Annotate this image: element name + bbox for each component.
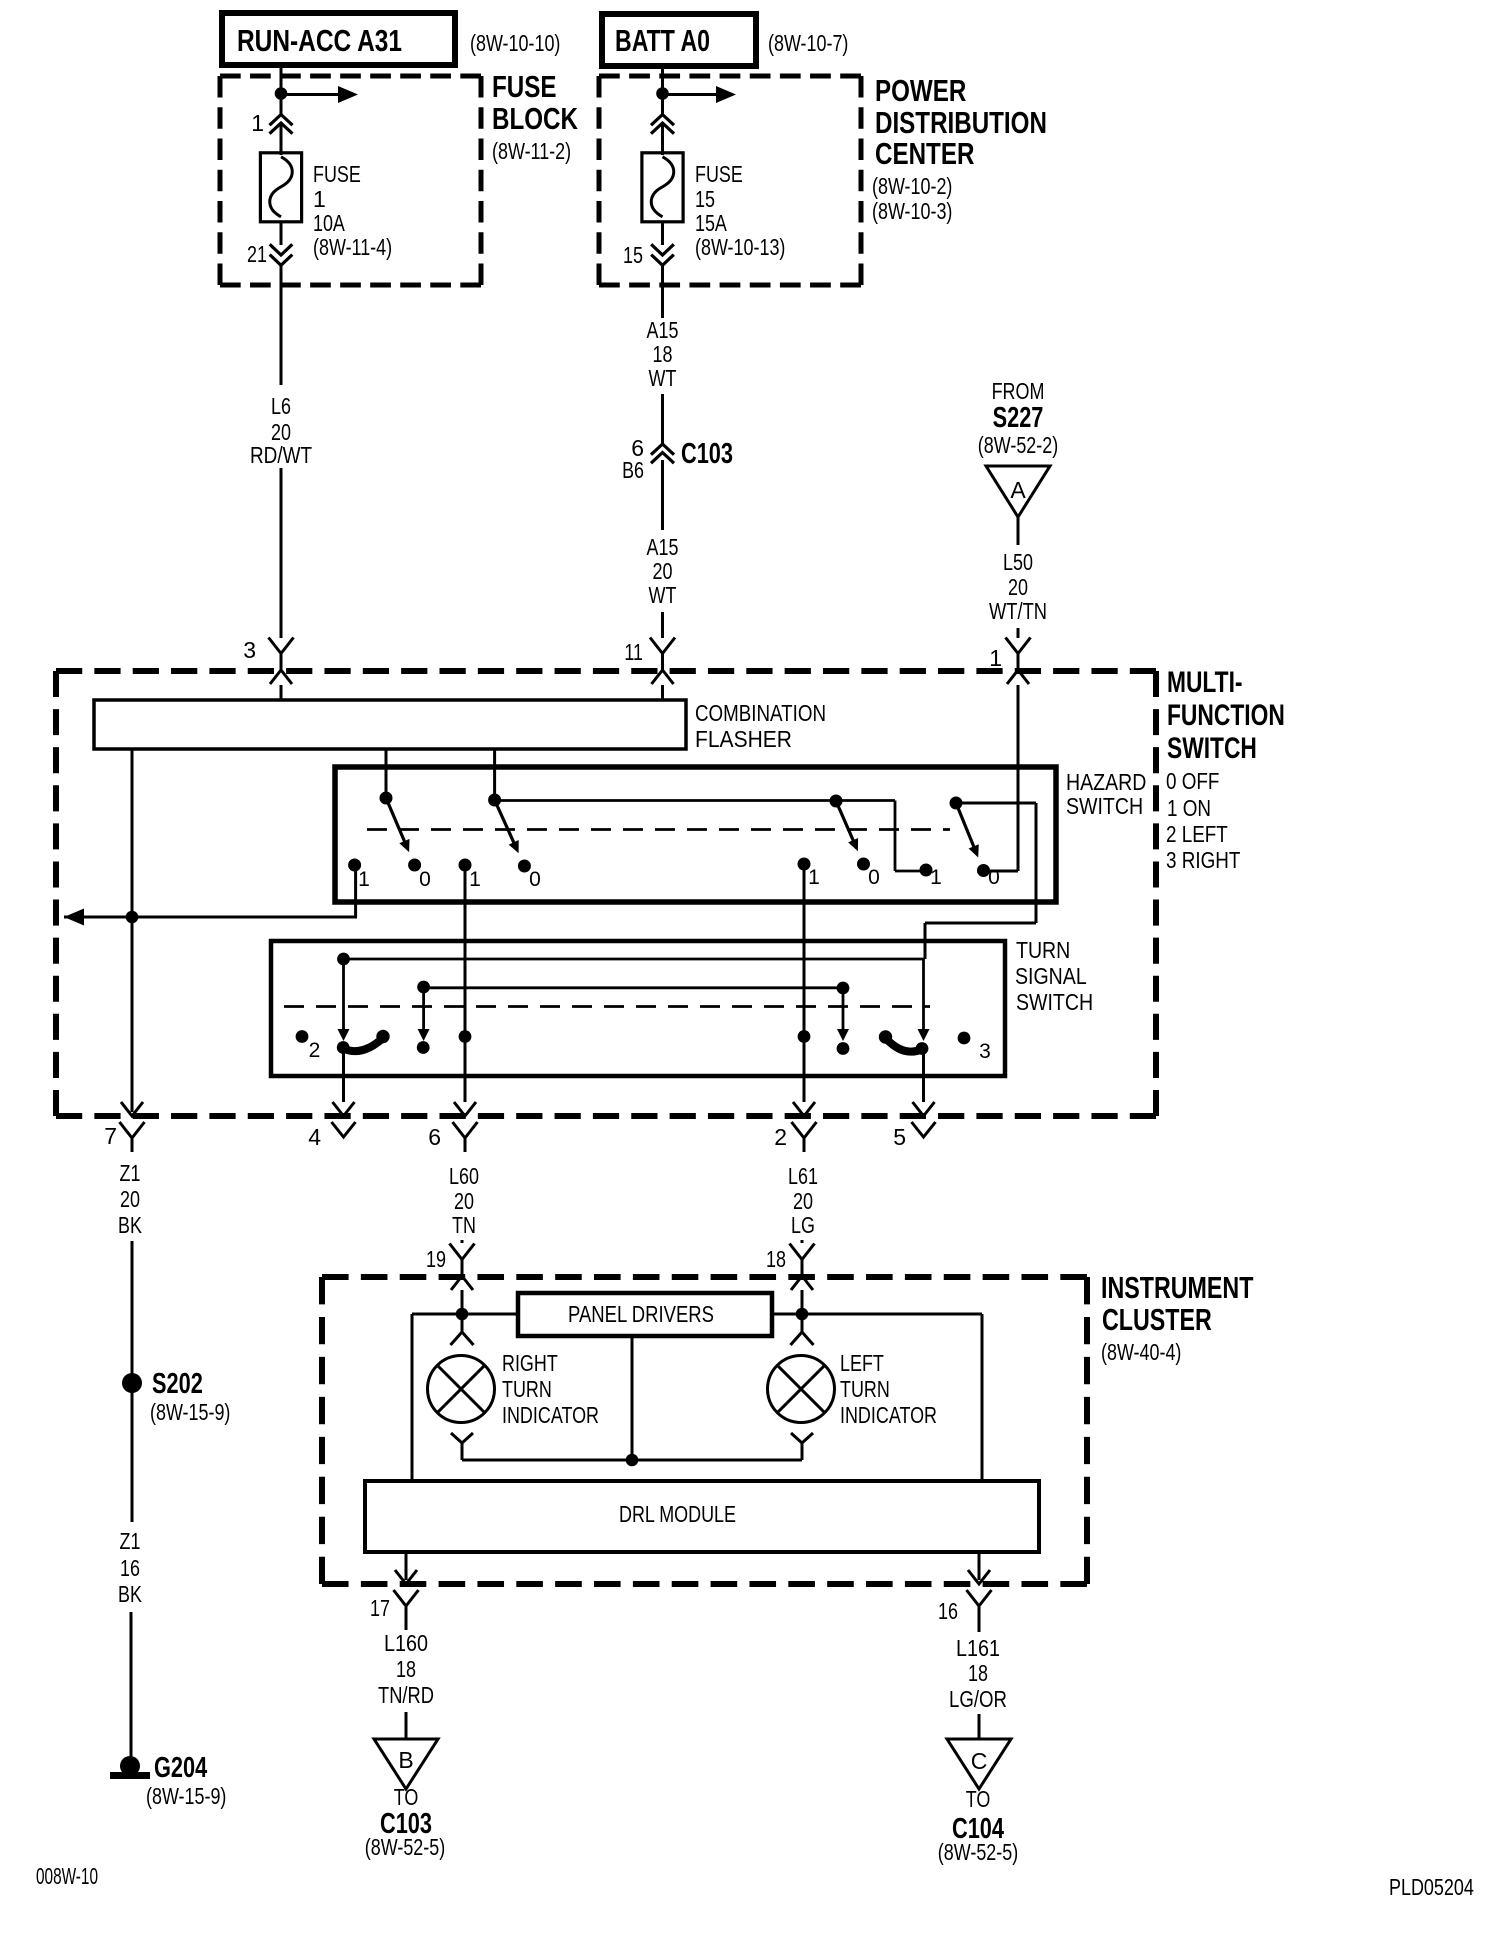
svg-text:20: 20	[653, 558, 673, 584]
svg-text:1: 1	[989, 645, 1002, 671]
svg-text:6: 6	[428, 1124, 441, 1150]
svg-text:(8W-15-9): (8W-15-9)	[150, 1399, 230, 1425]
svg-text:16: 16	[938, 1598, 958, 1624]
svg-text:L6: L6	[271, 393, 291, 419]
svg-text:2 LEFT: 2 LEFT	[1166, 821, 1228, 847]
svg-text:G204: G204	[154, 1752, 207, 1784]
svg-text:0: 0	[988, 866, 1000, 889]
svg-text:BATT A0: BATT A0	[615, 23, 710, 58]
svg-text:SWITCH: SWITCH	[1016, 989, 1093, 1015]
svg-text:1 ON: 1 ON	[1167, 795, 1211, 821]
svg-text:0 OFF: 0 OFF	[1166, 768, 1219, 794]
svg-text:C103: C103	[681, 438, 733, 470]
svg-text:1: 1	[251, 110, 264, 136]
svg-text:18: 18	[653, 341, 673, 367]
svg-text:TURN: TURN	[502, 1376, 552, 1402]
svg-text:(8W-52-5): (8W-52-5)	[938, 1839, 1018, 1865]
svg-text:COMBINATION: COMBINATION	[695, 700, 826, 726]
svg-text:10A: 10A	[313, 210, 345, 236]
svg-text:B6: B6	[622, 457, 644, 483]
svg-text:CENTER: CENTER	[875, 136, 974, 171]
svg-text:(8W-10-7): (8W-10-7)	[768, 30, 848, 56]
svg-text:TN: TN	[452, 1212, 476, 1238]
svg-text:INDICATOR: INDICATOR	[840, 1402, 937, 1428]
svg-text:FUSE: FUSE	[492, 69, 557, 104]
svg-text:(8W-52-2): (8W-52-2)	[978, 432, 1058, 458]
svg-text:SWITCH: SWITCH	[1167, 732, 1257, 765]
svg-text:L50: L50	[1003, 549, 1033, 575]
svg-text:Z1: Z1	[120, 1160, 141, 1186]
svg-text:1: 1	[930, 866, 942, 889]
svg-text:PANEL DRIVERS: PANEL DRIVERS	[568, 1301, 714, 1327]
svg-text:20: 20	[454, 1188, 474, 1214]
svg-text:7: 7	[104, 1123, 117, 1149]
svg-text:FUSE: FUSE	[695, 161, 743, 187]
svg-text:RIGHT: RIGHT	[502, 1350, 558, 1376]
svg-text:SIGNAL: SIGNAL	[1015, 963, 1087, 989]
svg-text:(8W-15-9): (8W-15-9)	[146, 1783, 226, 1809]
svg-text:HAZARD: HAZARD	[1066, 769, 1146, 795]
svg-text:DRL MODULE: DRL MODULE	[619, 1501, 736, 1527]
svg-text:20: 20	[120, 1186, 140, 1212]
svg-text:MULTI-: MULTI-	[1167, 666, 1243, 699]
svg-text:15: 15	[623, 242, 643, 268]
svg-text:0: 0	[529, 868, 541, 891]
svg-text:18: 18	[766, 1246, 786, 1272]
svg-text:L61: L61	[788, 1163, 818, 1189]
svg-text:B: B	[398, 1747, 413, 1773]
svg-text:WT/TN: WT/TN	[989, 598, 1047, 624]
svg-text:RUN-ACC A31: RUN-ACC A31	[237, 23, 402, 58]
svg-text:15: 15	[695, 186, 715, 212]
svg-text:1: 1	[313, 186, 326, 212]
svg-text:(8W-10-2): (8W-10-2)	[872, 173, 952, 199]
svg-text:TN/RD: TN/RD	[378, 1682, 434, 1708]
svg-text:(8W-10-13): (8W-10-13)	[695, 234, 785, 260]
svg-text:3 RIGHT: 3 RIGHT	[1166, 847, 1240, 873]
svg-text:WT: WT	[649, 582, 677, 608]
svg-text:1: 1	[358, 868, 370, 891]
svg-text:POWER: POWER	[875, 73, 966, 108]
svg-text:L60: L60	[449, 1163, 479, 1189]
svg-text:21: 21	[247, 241, 267, 267]
svg-text:WT: WT	[649, 365, 677, 391]
svg-text:C: C	[971, 1748, 988, 1774]
svg-text:(8W-11-2): (8W-11-2)	[492, 138, 571, 164]
svg-text:19: 19	[426, 1246, 446, 1272]
svg-text:BK: BK	[118, 1581, 142, 1607]
svg-text:LG/OR: LG/OR	[949, 1686, 1007, 1712]
svg-text:L160: L160	[384, 1630, 428, 1656]
svg-text:CLUSTER: CLUSTER	[1102, 1302, 1212, 1337]
svg-text:17: 17	[370, 1595, 390, 1621]
svg-text:FLASHER: FLASHER	[695, 726, 792, 752]
svg-text:4: 4	[308, 1124, 321, 1150]
svg-text:15A: 15A	[695, 210, 727, 236]
svg-text:0: 0	[419, 868, 431, 891]
svg-text:3: 3	[243, 637, 256, 663]
svg-text:18: 18	[968, 1660, 988, 1686]
svg-text:A15: A15	[647, 534, 679, 560]
svg-text:20: 20	[1008, 574, 1028, 600]
svg-text:1: 1	[469, 868, 481, 891]
svg-text:TO: TO	[966, 1786, 991, 1812]
svg-text:LEFT: LEFT	[840, 1350, 884, 1376]
svg-text:FROM: FROM	[992, 378, 1045, 404]
svg-text:TURN: TURN	[840, 1376, 890, 1402]
svg-text:18: 18	[396, 1656, 416, 1682]
svg-text:PLD05204: PLD05204	[1389, 1874, 1474, 1900]
svg-text:INSTRUMENT: INSTRUMENT	[1101, 1270, 1253, 1305]
svg-text:2: 2	[309, 1039, 321, 1062]
svg-text:FUSE: FUSE	[313, 161, 361, 187]
svg-text:BLOCK: BLOCK	[492, 101, 578, 136]
svg-text:11: 11	[624, 639, 643, 665]
svg-text:(8W-52-5): (8W-52-5)	[365, 1834, 445, 1860]
svg-text:SWITCH: SWITCH	[1066, 793, 1143, 819]
svg-text:FUNCTION: FUNCTION	[1167, 699, 1285, 732]
svg-text:3: 3	[979, 1040, 991, 1063]
svg-text:TO: TO	[394, 1784, 419, 1810]
svg-text:DISTRIBUTION: DISTRIBUTION	[875, 105, 1047, 140]
svg-text:008W-10: 008W-10	[36, 1863, 98, 1889]
svg-text:20: 20	[793, 1188, 813, 1214]
svg-text:0: 0	[868, 866, 880, 889]
svg-text:(8W-40-4): (8W-40-4)	[1101, 1339, 1181, 1365]
svg-text:BK: BK	[118, 1212, 142, 1238]
svg-text:A15: A15	[647, 317, 679, 343]
svg-text:LG: LG	[791, 1212, 815, 1238]
svg-text:(8W-10-3): (8W-10-3)	[872, 198, 952, 224]
svg-text:1: 1	[808, 866, 820, 889]
svg-text:S202: S202	[152, 1368, 203, 1400]
svg-text:2: 2	[774, 1124, 787, 1150]
svg-text:S227: S227	[993, 402, 1044, 434]
svg-text:(8W-10-10): (8W-10-10)	[470, 30, 560, 56]
svg-text:Z1: Z1	[120, 1528, 141, 1554]
svg-text:A: A	[1010, 477, 1026, 503]
svg-text:L161: L161	[956, 1635, 1000, 1661]
svg-text:INDICATOR: INDICATOR	[502, 1402, 599, 1428]
svg-text:TURN: TURN	[1016, 937, 1070, 963]
svg-text:16: 16	[120, 1555, 140, 1581]
svg-text:RD/WT: RD/WT	[250, 442, 312, 468]
svg-text:5: 5	[893, 1124, 906, 1150]
svg-text:(8W-11-4): (8W-11-4)	[313, 234, 392, 260]
